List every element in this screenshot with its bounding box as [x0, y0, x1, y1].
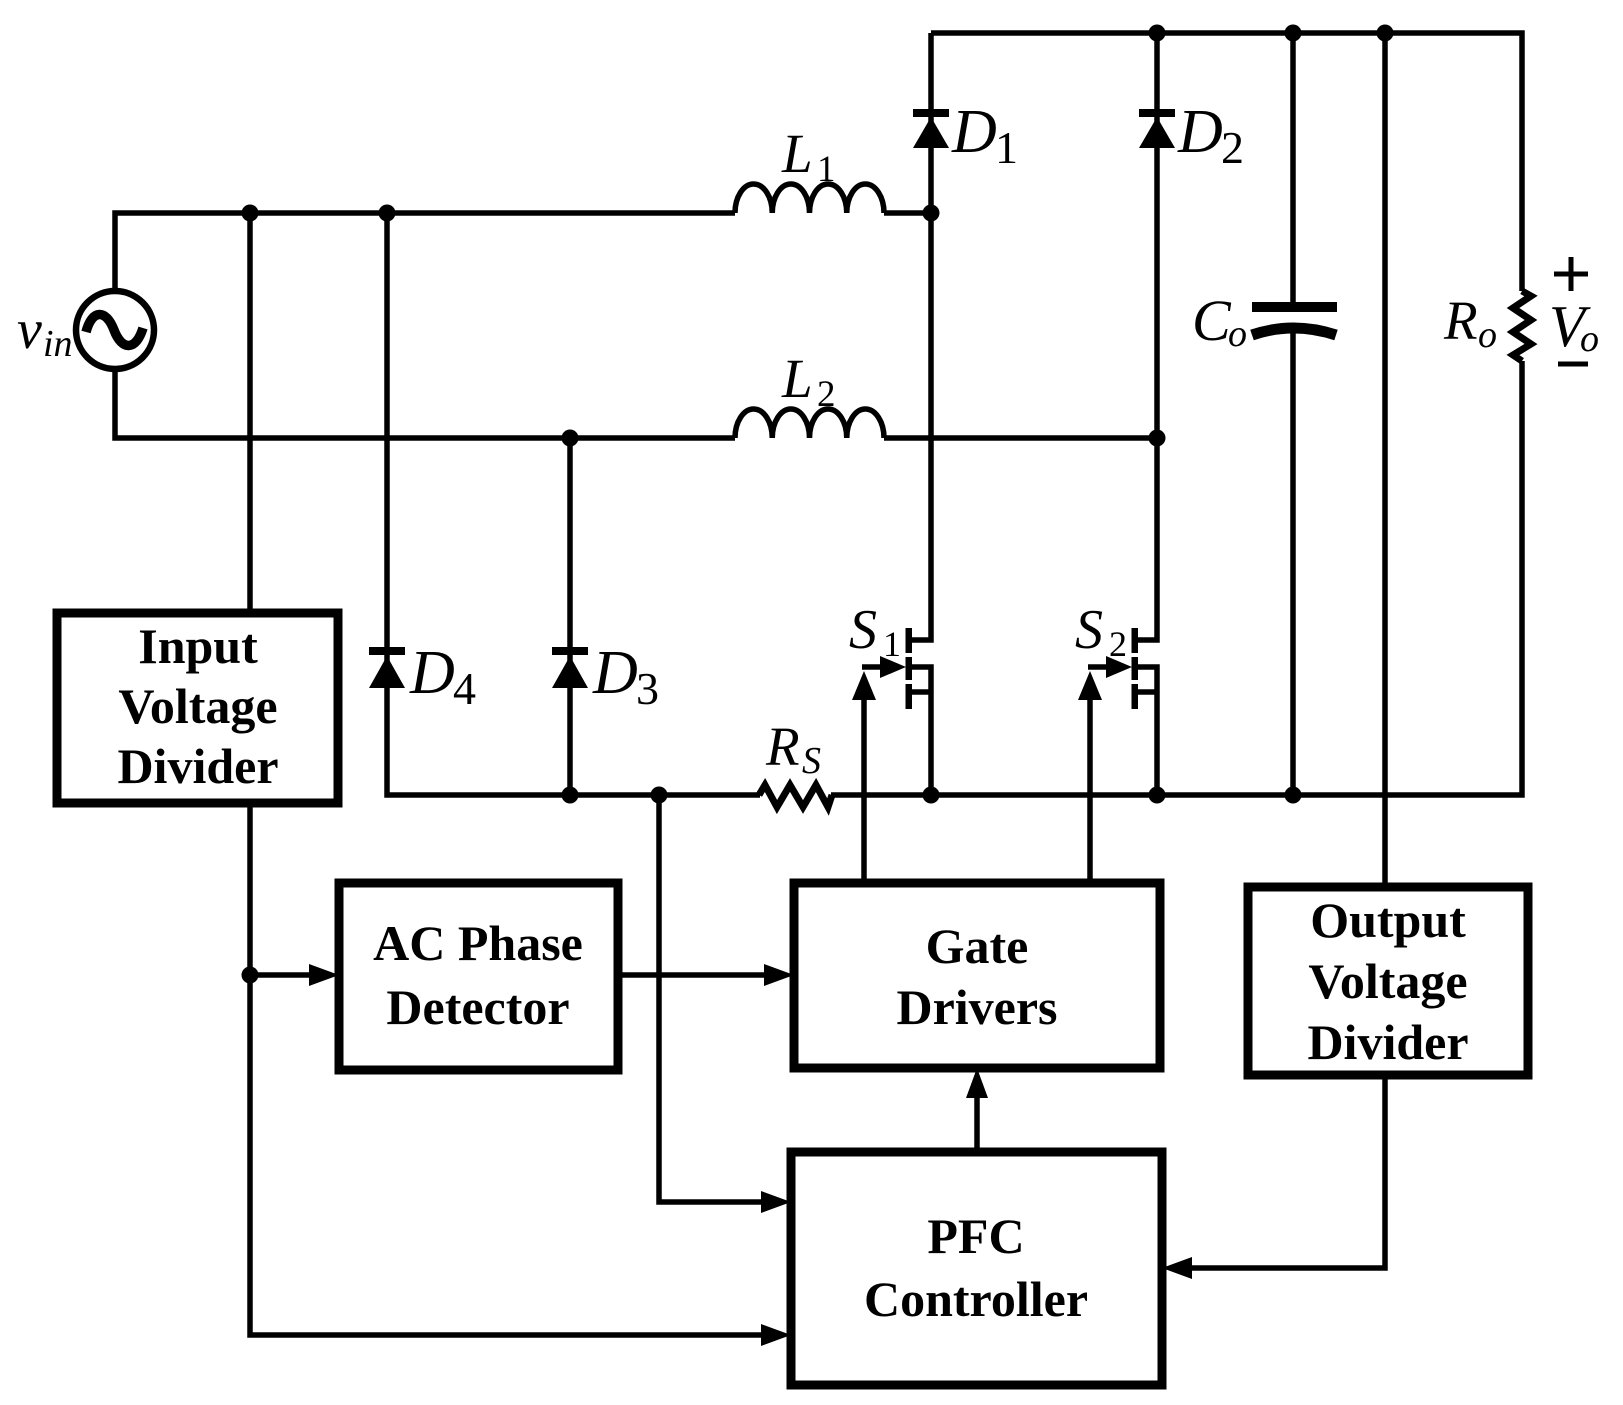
node dot rail D2 — [1149, 25, 1166, 42]
diode D3 — [552, 647, 588, 688]
arrowhead S1 gate right — [880, 656, 906, 678]
resistor Ro — [1513, 291, 1531, 361]
svg-text:o: o — [1580, 318, 1599, 360]
label Ro — [1443, 290, 1497, 356]
svg-text:o: o — [1478, 314, 1497, 356]
svg-text:C: C — [1192, 288, 1232, 353]
svg-text:Voltage: Voltage — [1308, 953, 1467, 1009]
arrowhead into ACPD — [309, 964, 339, 986]
svg-text:R: R — [765, 716, 800, 777]
wire S2 source — [1135, 667, 1157, 795]
label minus — [1558, 362, 1588, 367]
svg-text:1: 1 — [817, 149, 836, 190]
label L1 — [781, 123, 836, 190]
wire S2 gate lead — [1088, 664, 1108, 670]
label D2 — [1177, 98, 1244, 173]
svg-text:in: in — [43, 323, 73, 365]
block Gate Drivers — [794, 883, 1160, 1068]
label D4 — [409, 639, 476, 714]
svg-text:S: S — [849, 599, 877, 661]
label Vo — [1549, 293, 1599, 360]
inductor L1 — [735, 184, 884, 213]
block PFC Controller — [791, 1152, 1162, 1385]
svg-text:2: 2 — [1109, 624, 1127, 664]
node dot bottom S2 — [1149, 787, 1166, 804]
svg-text:L: L — [781, 123, 813, 184]
transistor S1 channel — [906, 628, 913, 709]
arrowhead into PFC left lower — [761, 1324, 791, 1346]
diode D1 — [913, 109, 949, 148]
wire output divider feed — [1382, 33, 1388, 887]
node dot bottom tap — [651, 787, 668, 804]
arrowhead into Gate Drivers bottom — [966, 1068, 988, 1098]
svg-text:S: S — [802, 740, 821, 782]
svg-text:2: 2 — [1221, 122, 1244, 173]
resistor RS — [759, 785, 832, 807]
label L2 — [781, 348, 836, 415]
inductor L2 — [735, 409, 884, 438]
node dot bottom Co — [1285, 787, 1302, 804]
wire top rail — [931, 33, 1522, 291]
wire S1 gate drive — [861, 697, 867, 883]
svg-text:Voltage: Voltage — [118, 678, 277, 734]
label Co — [1192, 288, 1247, 355]
wire D3 branch — [567, 438, 573, 795]
node dot top B — [379, 205, 396, 222]
diode D2 — [1139, 109, 1175, 148]
wire IVD down to PFC — [250, 803, 764, 1335]
label RS — [765, 716, 821, 782]
wire D2 branch top — [1135, 33, 1157, 640]
wire L2 to D2 node — [884, 435, 1157, 441]
wire OVD to PFC — [1192, 1075, 1385, 1268]
wire IVD feed — [247, 213, 253, 613]
node dot rail OVD — [1377, 25, 1394, 42]
transistor S2 channel — [1132, 628, 1139, 709]
arrowhead S2 gate up — [1078, 671, 1102, 700]
svg-text:Drivers: Drivers — [896, 979, 1057, 1035]
svg-text:R: R — [1443, 290, 1478, 351]
wire bottom input — [115, 369, 735, 438]
wire PFC to Gate Drivers — [974, 1098, 980, 1152]
block AC Phase Detector — [339, 883, 618, 1070]
label D3 — [592, 639, 659, 714]
node dot top A — [242, 205, 259, 222]
svg-text:Divider: Divider — [117, 738, 278, 794]
arrowhead into Gate Drivers left — [764, 964, 794, 986]
wire IVD tap to ACPD — [250, 972, 312, 978]
wire ACPD to Gate Drivers — [618, 972, 764, 978]
svg-text:Controller: Controller — [864, 1271, 1088, 1327]
svg-text:D: D — [1177, 98, 1223, 166]
wire D4 branch and left bottom rail — [387, 213, 760, 795]
arrowhead S2 gate right — [1106, 656, 1132, 678]
svg-text:2: 2 — [817, 374, 836, 415]
block Input Voltage Divider — [57, 613, 338, 803]
wire Co bottom — [1290, 330, 1296, 795]
node dot L1-D1 — [923, 205, 940, 222]
svg-text:D: D — [409, 639, 455, 707]
label vin — [17, 299, 73, 365]
wire top input — [115, 213, 735, 291]
node dot bottom S1 — [923, 787, 940, 804]
wire D1 branch top — [909, 33, 931, 640]
svg-text:AC Phase: AC Phase — [373, 915, 583, 971]
wire S1 source stub — [909, 689, 931, 695]
svg-text:1: 1 — [883, 624, 901, 664]
svg-text:PFC: PFC — [927, 1208, 1024, 1264]
svg-text:Output: Output — [1310, 892, 1466, 948]
source vin — [76, 291, 154, 369]
wire S2 gate drive — [1087, 697, 1093, 883]
wire S1 gate lead — [862, 664, 882, 670]
wire L1 to D1 node — [884, 210, 931, 216]
wire bottom rail right — [831, 361, 1522, 795]
node dot L2-D2 — [1149, 430, 1166, 447]
block Output Voltage Divider — [1248, 887, 1528, 1075]
svg-text:D: D — [951, 98, 997, 166]
label plus — [1554, 257, 1588, 291]
label S2 — [1075, 599, 1127, 664]
svg-text:Gate: Gate — [926, 918, 1029, 974]
wire S1 source — [909, 667, 931, 795]
diode D4 — [369, 647, 405, 688]
svg-text:Detector: Detector — [386, 979, 569, 1035]
svg-text:D: D — [592, 639, 638, 707]
label D1 — [951, 98, 1018, 173]
svg-text:Input: Input — [138, 618, 258, 674]
capacitor Co — [1252, 302, 1337, 335]
arrowhead into PFC right — [1162, 1257, 1192, 1279]
node dot D3 top — [562, 430, 579, 447]
wire Co top — [1290, 33, 1296, 304]
svg-text:S: S — [1075, 599, 1103, 661]
svg-text:Divider: Divider — [1307, 1014, 1468, 1070]
wire S2 source stub — [1135, 689, 1157, 695]
svg-text:L: L — [781, 348, 813, 409]
wire rail tap to PFC — [659, 795, 761, 1202]
arrowhead into PFC left upper — [761, 1191, 791, 1213]
arrowhead S1 gate up — [852, 671, 876, 700]
svg-text:1: 1 — [995, 122, 1018, 173]
svg-text:4: 4 — [453, 663, 476, 714]
node dot IVD tap — [242, 967, 259, 984]
svg-text:v: v — [17, 299, 42, 361]
svg-text:3: 3 — [636, 663, 659, 714]
node dot rail Co — [1285, 25, 1302, 42]
node dot bottom D3 — [562, 787, 579, 804]
svg-text:o: o — [1228, 313, 1247, 355]
label S1 — [849, 599, 901, 664]
